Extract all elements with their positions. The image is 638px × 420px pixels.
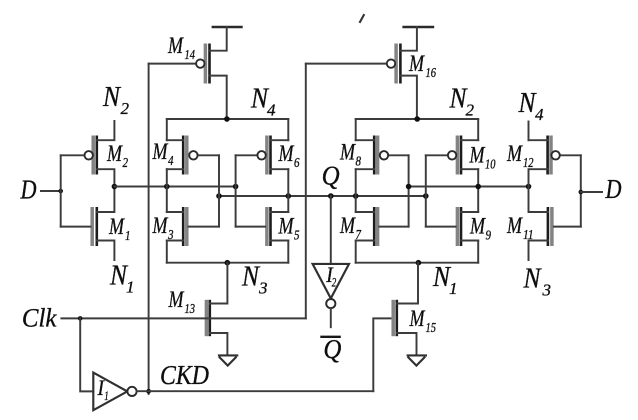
wire Clk to I1 input xyxy=(80,318,93,391)
wire node N1 rail xyxy=(356,262,479,264)
svg-text:M: M xyxy=(167,33,184,58)
stray tick mark xyxy=(360,15,364,22)
wire Q to I2 input xyxy=(330,196,332,264)
transistor M16 xyxy=(306,27,417,119)
wire rail A (internal node) xyxy=(114,186,235,188)
svg-text:M: M xyxy=(409,306,426,331)
node D output junction xyxy=(579,190,584,195)
wire M14 gate to CKD node xyxy=(148,64,150,394)
svg-text:M: M xyxy=(469,143,486,168)
VDD rail left xyxy=(213,26,242,29)
svg-text:4: 4 xyxy=(535,105,544,124)
svg-text:4: 4 xyxy=(267,101,276,120)
svg-text:8: 8 xyxy=(356,154,362,169)
svg-text:2: 2 xyxy=(121,99,130,118)
wire D output lead xyxy=(581,191,602,193)
svg-text:M: M xyxy=(339,213,356,238)
wire I2 output xyxy=(330,308,332,327)
svg-text:M: M xyxy=(506,213,523,238)
svg-text:15: 15 xyxy=(426,321,437,336)
wire node N4 rail xyxy=(167,118,288,120)
svg-text:M: M xyxy=(278,141,295,166)
transistor M2 xyxy=(61,121,115,187)
transistor M6 xyxy=(236,136,289,175)
node rail C latch tap xyxy=(475,184,481,190)
transistor M4 xyxy=(167,136,219,175)
svg-text:M: M xyxy=(408,51,425,76)
svg-text:2: 2 xyxy=(466,101,475,120)
wire CKD line xyxy=(137,390,374,392)
wire CKD to M15 gate xyxy=(373,318,391,391)
transistor M14 xyxy=(149,27,227,119)
svg-text:1: 1 xyxy=(126,278,135,297)
wire node N2 rail xyxy=(356,118,479,120)
node N3 junction xyxy=(225,260,231,266)
inverter I1 xyxy=(93,373,136,411)
node Q xyxy=(328,193,334,199)
svg-text:N: N xyxy=(523,264,542,295)
node inverter output on rail A xyxy=(112,184,118,190)
wire latch1 right vertical xyxy=(287,119,289,263)
transistor M5 xyxy=(236,207,289,246)
svg-text:2: 2 xyxy=(332,275,337,290)
transistor M7 xyxy=(356,207,409,246)
svg-text:M: M xyxy=(152,139,169,164)
svg-text:Q: Q xyxy=(323,334,341,364)
svg-text:Clk: Clk xyxy=(22,303,57,332)
transistor M10 xyxy=(426,136,478,175)
svg-text:M: M xyxy=(168,287,185,312)
svg-text:M: M xyxy=(339,140,356,165)
node rail B latch1 tap xyxy=(286,193,292,199)
wire node N3 rail xyxy=(167,262,288,264)
wire latch1 left vertical xyxy=(166,119,168,263)
node rail A end xyxy=(233,184,239,190)
svg-text:M: M xyxy=(469,214,486,239)
node rail A latch tap xyxy=(164,184,170,190)
wire latch2 left vertical xyxy=(355,119,357,263)
svg-text:6: 6 xyxy=(294,156,300,171)
wire D input lead xyxy=(41,190,61,192)
wire cross-couple v4 (gates M10,M9) xyxy=(425,155,427,226)
wire rail C xyxy=(409,186,529,188)
transistor M3 xyxy=(167,207,219,246)
inverter I2 xyxy=(313,264,349,308)
svg-text:11: 11 xyxy=(523,228,534,243)
transistor M15 xyxy=(393,263,418,356)
node CKD junction xyxy=(146,389,151,394)
transistor M9 xyxy=(426,207,478,246)
label Qbar xyxy=(322,334,342,364)
wire M16 gate to Clk line xyxy=(305,64,307,319)
wire D output vertical xyxy=(580,155,582,226)
wire latch2 right vertical xyxy=(477,119,479,263)
svg-text:14: 14 xyxy=(185,48,196,63)
svg-text:13: 13 xyxy=(185,302,196,317)
wire D gate vertical xyxy=(60,155,62,226)
node D gate junction xyxy=(58,189,63,194)
svg-text:1: 1 xyxy=(125,229,131,244)
svg-text:3: 3 xyxy=(542,281,552,300)
svg-text:D: D xyxy=(20,175,37,205)
ground M15 xyxy=(407,355,427,365)
node rail B latch2 tap xyxy=(353,193,359,199)
svg-text:3: 3 xyxy=(258,279,268,298)
transistor M8 xyxy=(356,136,409,175)
node rail C start xyxy=(406,184,412,190)
ground M13 xyxy=(218,355,238,365)
svg-text:7: 7 xyxy=(356,228,362,243)
svg-text:1: 1 xyxy=(449,279,458,298)
wire Clk line xyxy=(61,317,305,319)
VDD rail right xyxy=(404,26,433,29)
svg-text:M: M xyxy=(152,213,169,238)
svg-text:9: 9 xyxy=(486,228,492,243)
svg-text:10: 10 xyxy=(485,157,496,172)
svg-text:Q: Q xyxy=(322,160,340,190)
svg-text:N: N xyxy=(518,88,537,119)
svg-text:2: 2 xyxy=(123,156,129,171)
transistor M13 xyxy=(206,263,227,356)
svg-text:CKD: CKD xyxy=(160,360,209,390)
svg-text:1: 1 xyxy=(104,388,109,403)
node N4 junction xyxy=(224,116,230,122)
svg-text:M: M xyxy=(106,141,123,166)
node rail B end xyxy=(423,193,429,199)
svg-text:M: M xyxy=(108,214,125,239)
svg-text:16: 16 xyxy=(426,66,437,81)
svg-text:4: 4 xyxy=(168,154,174,169)
wire cross-couple v2 (gates M6,M5) xyxy=(235,155,237,226)
svg-text:M: M xyxy=(278,214,295,239)
svg-text:D: D xyxy=(605,174,622,204)
wire cross-couple v1 (gates M4,M3) xyxy=(218,155,220,226)
node rail B start xyxy=(216,193,222,199)
svg-text:3: 3 xyxy=(167,228,173,243)
svg-text:12: 12 xyxy=(523,156,534,171)
wire cross-couple v3 (gates M8,M7) xyxy=(408,155,410,226)
transistor M11 xyxy=(529,187,581,261)
transistor M12 xyxy=(529,136,581,187)
node N1 junction xyxy=(416,260,422,266)
node N2 junction xyxy=(414,116,420,122)
wire N4 stub output stage xyxy=(528,122,530,141)
svg-text:5: 5 xyxy=(294,228,300,243)
svg-text:N: N xyxy=(102,82,121,113)
svg-text:N: N xyxy=(241,262,260,293)
transistor M1 xyxy=(61,187,115,261)
node rail C end xyxy=(526,184,532,190)
svg-text:M: M xyxy=(506,141,523,166)
node Clk junction xyxy=(78,316,83,321)
wire rail B (Q rail) xyxy=(219,195,426,197)
